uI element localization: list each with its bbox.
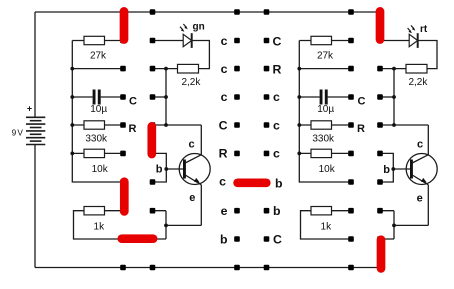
- svg-text:R: R: [357, 123, 365, 135]
- svg-text:b: b: [275, 176, 283, 190]
- svg-text:C: C: [273, 34, 282, 48]
- contact dots col x=266.5 center right: [264, 9, 270, 270]
- junction base Q1: [164, 167, 168, 171]
- contact dots col x=237 center left: [234, 9, 240, 270]
- svg-text:rt: rt: [420, 24, 428, 35]
- junction left rail row6: [70, 152, 74, 156]
- svg-text:10µ: 10µ: [90, 104, 107, 115]
- jumper J1 left top: [120, 11, 129, 39]
- svg-text:c: c: [221, 90, 228, 104]
- svg-text:b: b: [383, 164, 390, 176]
- wire cap row left: [72, 96, 123, 98]
- wire base bracket Q2: [380, 153, 394, 182]
- wire emitter vertical Q2: [427, 185, 429, 226]
- junction left rail row4: [70, 95, 74, 99]
- LED D1 green: [180, 24, 192, 48]
- wire LED1 cathode to 2.2k: [192, 41, 210, 69]
- jumper J6 right top: [376, 11, 385, 39]
- wire 330k row left: [72, 124, 123, 126]
- contact dots col x=351 right outer: [348, 9, 354, 270]
- svg-text:R: R: [219, 147, 228, 161]
- center column letters left: [219, 34, 228, 247]
- wire 1k loop left: [74, 211, 124, 239]
- jumper J4 left bottom horizontal: [122, 234, 153, 243]
- contact dots col x=152.5 left inner: [150, 9, 156, 270]
- wire 10k row right: [299, 152, 351, 154]
- resistor R8 10k right: [311, 149, 332, 157]
- wire emitter junction Q2: [380, 211, 429, 239]
- wire row3 left: [72, 68, 123, 70]
- junction right bus row5: [392, 123, 396, 127]
- junction emitter Q2: [392, 224, 396, 228]
- junction left bus row3: [164, 67, 168, 71]
- contact dots col x=123 left outer: [120, 9, 126, 270]
- junction right bus row4: [392, 95, 396, 99]
- wire bottom rail: [35, 267, 381, 269]
- wire battery top lead: [34, 12, 36, 117]
- svg-text:c: c: [219, 175, 226, 189]
- svg-text:e: e: [189, 192, 195, 204]
- wire 1k loop right: [301, 211, 352, 239]
- svg-text:e: e: [221, 204, 228, 218]
- wire LED2 anode: [380, 40, 410, 42]
- transistor Q1: [179, 154, 210, 185]
- svg-text:V: V: [17, 128, 23, 138]
- wire 27k row right: [299, 40, 351, 42]
- wire row3 right: [299, 68, 351, 70]
- wire base lead Q2: [393, 168, 410, 170]
- svg-text:1k: 1k: [321, 221, 333, 232]
- wire collector row5 right: [380, 124, 428, 126]
- capacitor C2 10u right: [320, 90, 328, 105]
- resistor R3 10k left: [84, 149, 105, 157]
- wire stub row4 right: [380, 96, 394, 98]
- wire collector vertical Q1: [200, 125, 202, 155]
- svg-text:C: C: [219, 118, 228, 132]
- battery B1 9V: [26, 117, 45, 144]
- center column letters right: [273, 34, 283, 246]
- resistor R7 330k right: [311, 121, 332, 129]
- svg-text:b: b: [156, 164, 163, 176]
- resistor R2 330k left: [84, 121, 105, 129]
- wire emitter vertical Q1: [200, 185, 202, 226]
- svg-text:R: R: [273, 63, 282, 77]
- wire right supply rail: [299, 41, 351, 183]
- wire base lead Q1: [166, 168, 183, 170]
- svg-text:C: C: [129, 96, 137, 108]
- svg-text:c: c: [273, 147, 280, 161]
- junction right rail row6: [297, 152, 301, 156]
- wire emitter junction Q1: [153, 211, 202, 239]
- jumper J2 left middle: [147, 126, 156, 154]
- svg-text:10µ: 10µ: [317, 104, 334, 115]
- svg-text:330k: 330k: [312, 134, 335, 145]
- svg-text:10k: 10k: [92, 164, 109, 175]
- wire collector vertical Q2: [427, 125, 429, 155]
- junction left rail row5: [70, 123, 74, 127]
- resistor R1 27k left: [84, 36, 105, 44]
- wire cap row right: [299, 96, 351, 98]
- jumper J5 center horizontal: [238, 178, 267, 187]
- svg-text:2,2k: 2,2k: [181, 77, 201, 88]
- wire top rail: [35, 11, 380, 13]
- resistor R5 2.2k left: [178, 64, 199, 73]
- wire 2.2k right-side left lead: [380, 68, 406, 70]
- resistor R6 27k right: [311, 36, 332, 44]
- jumper J3 left lower: [120, 182, 129, 212]
- wire 10k row left: [72, 152, 123, 154]
- svg-text:C: C: [273, 233, 282, 247]
- junction right bus row3: [392, 67, 396, 71]
- svg-text:+: +: [27, 104, 32, 114]
- junction left bus row4: [164, 95, 168, 99]
- svg-text:c: c: [273, 118, 280, 132]
- svg-text:c: c: [189, 138, 195, 150]
- capacitor C1 10u left: [93, 90, 101, 105]
- svg-text:10k: 10k: [319, 164, 336, 175]
- svg-text:27k: 27k: [317, 51, 334, 62]
- svg-text:9: 9: [12, 128, 17, 138]
- jumper J7 right bottom: [377, 240, 386, 269]
- wire collector row5 left: [153, 124, 202, 126]
- wire left supply rail: [72, 41, 123, 183]
- wire LED2 cathode to 2.2k: [418, 41, 437, 69]
- transistor Q2: [406, 154, 437, 185]
- svg-text:330k: 330k: [85, 134, 108, 145]
- wire 27k row left: [72, 40, 123, 42]
- resistor R9 1k right: [311, 207, 332, 215]
- wire 330k row right: [299, 124, 351, 126]
- svg-text:c: c: [417, 139, 423, 151]
- junction left rail row3: [70, 67, 74, 71]
- svg-text:1k: 1k: [94, 221, 106, 232]
- junction left bus row5: [164, 123, 168, 127]
- junction right rail row4: [297, 95, 301, 99]
- svg-text:b: b: [220, 232, 228, 246]
- svg-text:gn: gn: [193, 22, 205, 33]
- svg-text:b: b: [273, 204, 281, 218]
- svg-text:C: C: [358, 96, 366, 108]
- contact dots col x=379.5 right inner: [377, 9, 383, 270]
- junction base Q2: [391, 167, 395, 171]
- wire node bus right: [393, 69, 395, 125]
- wire base bracket Q1: [153, 153, 167, 182]
- junction right rail row5: [297, 123, 301, 127]
- svg-text:c: c: [221, 62, 228, 76]
- svg-text:c: c: [273, 90, 280, 104]
- junction emitter Q1: [164, 224, 168, 228]
- svg-text:R: R: [129, 123, 137, 135]
- svg-text:27k: 27k: [90, 51, 107, 62]
- red jumpers: [122, 11, 381, 268]
- svg-text:e: e: [417, 193, 423, 205]
- wire battery bottom lead: [34, 145, 36, 268]
- LED D2 red: [408, 25, 418, 48]
- wire node bus left: [165, 69, 167, 125]
- junction right rail row3: [297, 67, 301, 71]
- svg-text:2,2k: 2,2k: [408, 77, 428, 88]
- wire 2.2k left to contact: [153, 68, 178, 70]
- svg-text:c: c: [221, 34, 228, 48]
- wire LED1 anode: [153, 40, 184, 42]
- resistor R10 2.2k right: [406, 64, 427, 73]
- wire stub row4 left: [153, 96, 167, 98]
- resistor R4 1k left: [84, 207, 105, 215]
